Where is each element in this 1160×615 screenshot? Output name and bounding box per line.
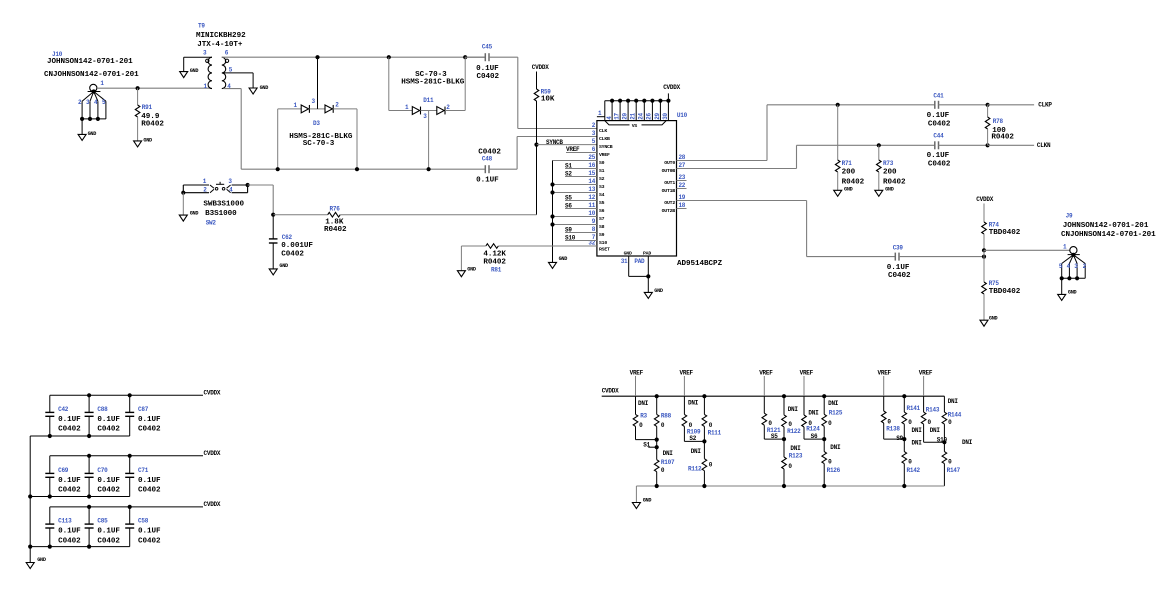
svg-text:0: 0 (887, 418, 891, 425)
net SYNCB wire to U10 pin5 (537, 139, 597, 146)
svg-text:C88: C88 (97, 406, 108, 413)
wire SYNCB down to R76 (536, 145, 538, 215)
svg-text:C0402: C0402 (138, 487, 161, 495)
svg-text:C0402: C0402 (281, 251, 304, 259)
junction S5 node (782, 437, 786, 441)
svg-text:3: 3 (312, 98, 316, 105)
svg-text:0: 0 (948, 419, 952, 426)
svg-text:R107: R107 (661, 459, 675, 466)
svg-text:C58: C58 (138, 518, 149, 525)
resistor R121 (762, 396, 781, 440)
svg-text:R59: R59 (541, 88, 552, 95)
svg-text:1: 1 (204, 83, 208, 90)
junction rail C85 (87, 505, 91, 509)
svg-text:S4: S4 (599, 192, 605, 198)
svg-text:GND: GND (624, 250, 632, 256)
svg-text:S9: S9 (599, 232, 605, 238)
resistor R109 (682, 396, 701, 441)
ground GND (C62) (269, 263, 288, 275)
svg-text:29: 29 (654, 112, 661, 119)
svg-text:CVDDX: CVDDX (532, 64, 549, 71)
svg-text:GND: GND (654, 288, 663, 294)
junction gnd rail R123 (782, 484, 786, 488)
svg-text:R91: R91 (142, 104, 153, 111)
net S9 stub at U10 (565, 226, 597, 233)
capacitor C87 (125, 395, 161, 436)
svg-text:0: 0 (828, 459, 832, 466)
wire ground rail (cap bank row 2) (30, 496, 130, 498)
junction D3 right on bottom rail (355, 167, 359, 171)
svg-text:S2: S2 (689, 435, 696, 442)
wire rail to R144 (943, 396, 945, 412)
svg-text:S6: S6 (811, 433, 818, 440)
resistor R141 (902, 396, 922, 439)
svg-text:1: 1 (203, 178, 207, 185)
svg-text:26: 26 (646, 112, 653, 119)
svg-text:CNJOHNSON142-0701-201: CNJOHNSON142-0701-201 (1061, 231, 1156, 239)
wire cap bank ground trunk (29, 436, 31, 563)
resistor R124 (802, 396, 821, 439)
net VREF stub 1 (630, 370, 644, 397)
junction SW2 pin3-4 (246, 183, 250, 187)
svg-text:S7: S7 (599, 216, 605, 222)
op-amp U10 box (597, 112, 723, 268)
svg-text:DNI: DNI (830, 444, 841, 451)
wire node to R75 (983, 250, 985, 282)
svg-text:R144: R144 (948, 412, 962, 419)
svg-text:C113: C113 (58, 518, 72, 525)
capacitor C85 (85, 507, 121, 547)
ground GND (R75) (980, 315, 998, 326)
svg-text:GND: GND (467, 266, 476, 272)
ground GND (SW2) (179, 211, 198, 222)
svg-text:C45: C45 (482, 44, 493, 51)
svg-text:GND: GND (643, 497, 652, 503)
net CLKN (988, 142, 1051, 149)
svg-text:3: 3 (203, 49, 207, 56)
svg-text:0: 0 (948, 459, 952, 466)
svg-text:1: 1 (294, 102, 298, 109)
svg-text:C0402: C0402 (58, 426, 81, 434)
wire C45 to U10 CLK (518, 57, 597, 128)
svg-text:4.12K: 4.12K (483, 251, 506, 259)
capacitor C42 (45, 395, 81, 436)
resistor R107 (654, 440, 675, 486)
svg-text:2: 2 (78, 99, 82, 106)
junction S1 node (655, 438, 659, 442)
svg-text:C71: C71 (138, 467, 149, 474)
svg-text:0: 0 (709, 461, 713, 468)
junction rail R122 (782, 394, 786, 398)
svg-text:D3: D3 (313, 120, 320, 127)
svg-text:0.1UF: 0.1UF (927, 152, 950, 160)
junction D3 pin3 on top rail (315, 55, 319, 59)
svg-text:OUT0B: OUT0B (662, 168, 676, 174)
wire R138 to R141 join (884, 435, 905, 442)
resistor R125 (822, 396, 843, 439)
svg-text:R122: R122 (787, 428, 801, 435)
svg-text:CVDDX: CVDDX (602, 388, 619, 395)
U10 left pin names and numbers (588, 122, 612, 252)
svg-text:R76: R76 (330, 206, 341, 213)
svg-text:VREF: VREF (919, 370, 933, 377)
connector J9 (1059, 212, 1156, 280)
net VREF stub at U10 pin6 (566, 146, 597, 153)
capacitor C88 (85, 395, 121, 436)
svg-text:S2: S2 (565, 170, 572, 177)
net VREF stub 3 (759, 370, 773, 397)
svg-text:C0402: C0402 (888, 272, 911, 280)
U10 bottom pins GND PAD (621, 250, 652, 292)
svg-text:B3S1000: B3S1000 (205, 210, 237, 218)
wire D3 right leg (356, 109, 358, 169)
resistor R88 (654, 396, 671, 439)
junction rail R88 (655, 394, 659, 398)
svg-text:1: 1 (405, 104, 409, 111)
resistor R74 (982, 221, 1021, 250)
svg-text:R123: R123 (789, 453, 803, 460)
junction bottom C42 (48, 434, 52, 438)
switch SW2 (183, 178, 247, 226)
svg-text:R125: R125 (829, 410, 843, 417)
wire T9 pin6 to C45 (top rail) (222, 56, 486, 58)
ground GND (T9 pin3) (180, 68, 199, 78)
ground GND (S chain) (549, 256, 568, 268)
svg-text:VREF: VREF (878, 370, 892, 377)
wire S0 chain to ground (553, 161, 597, 263)
svg-text:DNI: DNI (912, 440, 923, 447)
resistor R111 (702, 396, 722, 441)
svg-text:OUT1: OUT1 (664, 180, 675, 186)
svg-text:3: 3 (1074, 263, 1078, 270)
svg-text:R0402: R0402 (883, 178, 906, 186)
svg-text:GND: GND (37, 557, 46, 563)
resistor R142 (902, 439, 922, 486)
svg-text:24: 24 (638, 112, 645, 119)
svg-text:0.1UF: 0.1UF (927, 112, 950, 120)
junction gnd rail R112 (702, 484, 706, 488)
svg-text:5: 5 (1059, 263, 1063, 270)
svg-text:S10: S10 (599, 240, 607, 246)
svg-text:0: 0 (768, 420, 772, 427)
svg-text:S2: S2 (599, 176, 605, 182)
svg-text:S6: S6 (599, 208, 605, 214)
svg-text:DNI: DNI (962, 439, 973, 446)
wire ground rail (cap bank row 1) (30, 435, 130, 437)
svg-text:R143: R143 (926, 406, 940, 413)
svg-text:0: 0 (908, 419, 912, 426)
svg-text:C0402: C0402 (97, 537, 120, 545)
svg-text:PAD: PAD (643, 250, 651, 256)
ground GND (R81) (457, 266, 476, 276)
svg-text:C0402: C0402 (928, 161, 951, 169)
svg-text:S6: S6 (565, 202, 572, 209)
svg-text:R3: R3 (640, 412, 647, 419)
svg-text:S10: S10 (565, 234, 576, 241)
junction SYNCB (534, 143, 538, 147)
resistor R123 (782, 439, 803, 486)
svg-text:T9: T9 (198, 23, 205, 30)
capacitor C58 (125, 507, 161, 547)
svg-text:GND: GND (885, 186, 894, 192)
connector J10 (44, 51, 139, 121)
svg-text:R88: R88 (661, 412, 672, 419)
svg-text:DNI: DNI (930, 427, 941, 434)
junction R78 top (986, 103, 990, 107)
svg-text:SW2: SW2 (206, 219, 217, 226)
net S2 stub at U10 (565, 170, 597, 177)
svg-text:C39: C39 (893, 245, 904, 252)
svg-text:R71: R71 (842, 160, 853, 167)
svg-text:VREF: VREF (599, 152, 610, 158)
svg-text:3: 3 (228, 178, 232, 185)
resistor R59 (534, 88, 555, 144)
junction rail C88 (87, 393, 91, 397)
junction trunk row3 (28, 545, 32, 549)
resistor R122 (782, 396, 801, 439)
svg-text:0.1UF: 0.1UF (58, 528, 81, 536)
svg-text:JTX-4-10T+: JTX-4-10T+ (197, 41, 243, 49)
svg-text:SC-70-3: SC-70-3 (303, 140, 335, 148)
junction gnd rail R107 (655, 484, 659, 488)
svg-text:S1: S1 (565, 162, 572, 169)
svg-text:R0402: R0402 (324, 226, 347, 234)
svg-text:VREF: VREF (759, 370, 773, 377)
capacitor C71 (125, 456, 161, 497)
wire C48 to U10 CLKB (517, 137, 597, 170)
power CVDDX rail (S network) (602, 388, 945, 397)
svg-text:S1: S1 (643, 442, 650, 449)
svg-text:30: 30 (662, 112, 669, 119)
svg-text:C44: C44 (933, 133, 944, 140)
svg-text:C85: C85 (97, 518, 108, 525)
svg-text:0.1UF: 0.1UF (97, 528, 120, 536)
svg-text:R147: R147 (947, 467, 961, 474)
svg-text:0: 0 (828, 420, 832, 427)
svg-text:C41: C41 (933, 93, 944, 100)
capacitor C45 (465, 44, 518, 81)
svg-text:5: 5 (229, 66, 233, 73)
ground GND (J9) (1058, 278, 1077, 300)
svg-text:DNI: DNI (691, 448, 702, 455)
svg-text:0.1UF: 0.1UF (58, 477, 81, 485)
net VREF stub 2 (680, 370, 694, 397)
wire R3 to R88 join (636, 439, 657, 441)
svg-text:DNI: DNI (788, 406, 799, 413)
svg-text:DNI: DNI (663, 450, 674, 457)
svg-text:0.1UF: 0.1UF (476, 65, 499, 73)
junction rail C58 (128, 505, 132, 509)
svg-text:GND: GND (844, 186, 853, 192)
resistor R71 (835, 105, 864, 191)
svg-text:0.1UF: 0.1UF (138, 416, 161, 424)
capacitor C70 (85, 456, 121, 497)
svg-text:0: 0 (928, 419, 932, 426)
net VREF stub 5 (878, 370, 892, 397)
svg-text:0: 0 (661, 467, 665, 474)
svg-text:R81: R81 (491, 267, 502, 274)
junction SW2 pin1-2 (181, 191, 185, 195)
junction bottom C113 (48, 545, 52, 549)
ground GND (R71) (834, 186, 853, 196)
junction S2 node (702, 439, 706, 443)
svg-text:C42: C42 (58, 406, 69, 413)
transformer T9 (196, 23, 246, 91)
svg-text:0: 0 (788, 421, 792, 428)
svg-text:PAD: PAD (634, 258, 645, 265)
junction bottom C88 (87, 434, 91, 438)
wire ground rail (S network) (636, 486, 944, 503)
svg-text:DNI: DNI (790, 445, 801, 452)
svg-text:R141: R141 (907, 405, 921, 412)
wire R143 to R144 join (924, 436, 948, 443)
capacitor C44 (927, 133, 988, 169)
capacitor C39 (887, 245, 984, 280)
svg-text:S5: S5 (565, 194, 572, 201)
svg-text:1: 1 (598, 110, 602, 117)
ground GND (T9 pin5) (249, 85, 268, 94)
svg-text:R0402: R0402 (483, 258, 506, 266)
svg-text:C69: C69 (58, 467, 69, 474)
wire R121 to R122 join (764, 438, 784, 440)
svg-text:2: 2 (335, 101, 339, 108)
junction C62 node (271, 213, 275, 217)
svg-text:JOHNSON142-0701-201: JOHNSON142-0701-201 (47, 58, 133, 66)
junction trunk row2 (28, 494, 32, 498)
junction S9 node (902, 437, 906, 441)
svg-text:R78: R78 (993, 118, 1004, 125)
svg-text:GND: GND (260, 85, 269, 91)
svg-text:VS: VS (632, 123, 638, 129)
wire D3 left leg (277, 109, 279, 169)
net CLKP (988, 102, 1053, 109)
svg-text:CLKP: CLKP (1038, 102, 1052, 109)
svg-text:4: 4 (1067, 263, 1071, 270)
svg-text:S1: S1 (599, 168, 605, 174)
junction S4 chain (550, 190, 554, 194)
svg-text:CNJOHNSON142-0701-201: CNJOHNSON142-0701-201 (44, 71, 139, 79)
ground GND (cap bank) (26, 557, 46, 569)
net VREF stub 4 (800, 370, 814, 397)
svg-text:OUT2: OUT2 (664, 200, 675, 206)
svg-text:0.1UF: 0.1UF (887, 264, 910, 272)
capacitor C48 (476, 149, 517, 185)
wire T9 pin4 to C48 (bottom rail) (224, 89, 486, 170)
net S6 stub at U10 (565, 202, 597, 209)
svg-text:DNI: DNI (688, 400, 699, 407)
svg-text:0.1UF: 0.1UF (97, 416, 120, 424)
svg-text:GND: GND (190, 68, 199, 74)
svg-text:AD9514BCPZ: AD9514BCPZ (677, 260, 723, 268)
junction rail C87 (128, 393, 132, 397)
wire CVDDX rail (cap bank row 3) (50, 501, 221, 508)
svg-text:6: 6 (225, 49, 229, 56)
svg-text:C0402: C0402 (477, 73, 500, 81)
ground GND (J10) (78, 119, 96, 140)
svg-text:TBD0402: TBD0402 (989, 229, 1021, 237)
junction D3 left on bottom rail (276, 167, 280, 171)
svg-text:20: 20 (622, 112, 629, 119)
svg-text:S3: S3 (599, 184, 605, 190)
U10 VS bus pins (597, 99, 671, 121)
svg-text:CVDDX: CVDDX (663, 84, 680, 91)
svg-text:R111: R111 (708, 429, 722, 436)
ground GND (R91) (134, 137, 152, 147)
wire CVDDX rail (cap bank row 1) (50, 390, 221, 397)
svg-text:OUT1B: OUT1B (662, 188, 676, 194)
svg-text:DNI: DNI (948, 398, 959, 405)
junction gnd rail R126 (822, 484, 826, 488)
resistor R78 (985, 105, 1014, 146)
wire R124 to R125 join (804, 433, 824, 440)
svg-text:MINICKBH292: MINICKBH292 (196, 32, 246, 40)
svg-text:C0402: C0402 (58, 487, 81, 495)
svg-text:OUT0: OUT0 (664, 160, 675, 166)
resistor R73 (877, 145, 907, 190)
wire J10 pin1 to T9 pin1 (97, 87, 212, 89)
svg-text:200: 200 (883, 169, 897, 177)
wire OUT2 to C39 (677, 201, 896, 257)
svg-text:0: 0 (788, 463, 792, 470)
svg-text:R75: R75 (989, 280, 1000, 287)
svg-text:R74: R74 (989, 221, 1000, 228)
svg-text:31: 31 (621, 258, 628, 265)
junction bottom C69 (48, 494, 52, 498)
svg-text:HSMS-281C-BLKG: HSMS-281C-BLKG (401, 79, 465, 87)
wire SW2 pins12 to ground (182, 193, 184, 215)
svg-text:D11: D11 (423, 97, 434, 104)
junction rail R125 (822, 394, 826, 398)
svg-text:DNI: DNI (638, 400, 649, 407)
resistor R138 (881, 396, 900, 439)
power CVDDX (R59) (532, 64, 549, 89)
svg-text:SWB3S1000: SWB3S1000 (203, 200, 244, 208)
svg-text:CVDDX: CVDDX (976, 196, 993, 203)
svg-text:SYNCB: SYNCB (599, 144, 613, 150)
svg-text:C87: C87 (138, 406, 149, 413)
junction S3 chain (550, 182, 554, 186)
svg-text:R142: R142 (907, 467, 921, 474)
svg-text:3: 3 (423, 113, 427, 120)
svg-text:3: 3 (86, 99, 90, 106)
svg-text:DNI: DNI (912, 427, 923, 434)
svg-text:CLK: CLK (599, 128, 607, 134)
svg-text:CVDDX: CVDDX (204, 501, 221, 508)
svg-text:0.1UF: 0.1UF (138, 528, 161, 536)
capacitor C113 (45, 507, 81, 547)
svg-text:R0402: R0402 (842, 178, 865, 186)
wire R109 to R111 join (684, 435, 704, 442)
junction R78 bottom (986, 143, 990, 147)
junction S8 chain (550, 222, 554, 226)
svg-text:GND: GND (190, 211, 199, 217)
resistor R91 (135, 88, 164, 141)
svg-text:GND: GND (143, 137, 152, 143)
wire OUT0 to CLKP (677, 105, 935, 161)
wire SW2 to node C62 (248, 185, 274, 215)
wire OUT0B to CLKN (677, 145, 935, 168)
net S1 stub at U10 (565, 162, 597, 169)
svg-text:21: 21 (630, 112, 637, 119)
svg-text:C0402: C0402 (138, 537, 161, 545)
svg-text:C0402: C0402 (58, 537, 81, 545)
svg-text:C0402: C0402 (97, 426, 120, 434)
svg-text:200: 200 (842, 169, 856, 177)
svg-text:C0402: C0402 (138, 426, 161, 434)
svg-text:C70: C70 (97, 467, 108, 474)
svg-text:VREF: VREF (800, 370, 814, 377)
svg-text:R0402: R0402 (991, 134, 1014, 142)
